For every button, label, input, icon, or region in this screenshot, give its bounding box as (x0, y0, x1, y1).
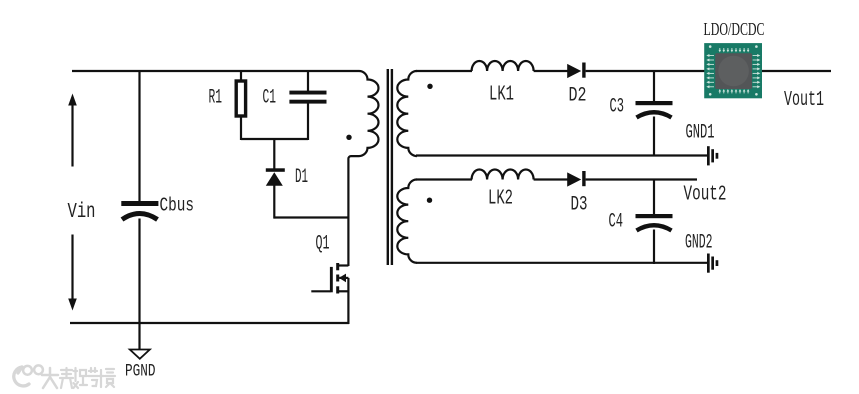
wire top bus (input rail) (72, 70, 359, 72)
wire secondary2 top (416, 178, 472, 180)
transformer T1 primary winding (348, 71, 378, 266)
svg-text:R1: R1 (209, 87, 223, 110)
transistor Q1 body arrow (339, 277, 348, 279)
capacitor C4 bottom curved plate (637, 225, 672, 230)
wire snubber bottom (241, 138, 308, 140)
wire secondary1 top (416, 70, 472, 72)
svg-text:D2: D2 (569, 85, 587, 108)
svg-text:D3: D3 (571, 194, 588, 217)
capacitor Cbus top plate (121, 201, 158, 206)
svg-text:LK1: LK1 (489, 83, 514, 107)
wire bottom bus (return rail) (70, 322, 349, 324)
ground GND1 symbol (707, 146, 710, 165)
svg-text:C3: C3 (610, 96, 625, 119)
wire R1 to snubber bottom (240, 116, 242, 140)
wire top bus to R1 (240, 71, 242, 81)
wire secondary2 bottom (416, 262, 708, 264)
svg-text:Vout2: Vout2 (684, 183, 727, 207)
capacitor Cbus bottom curved plate (122, 214, 158, 220)
IC U1 LDO/DCDC chip (704, 43, 762, 98)
capacitor C4 top plate (636, 214, 673, 218)
wire top bus to C1 (307, 71, 309, 91)
wire clamp horizontal (274, 216, 348, 218)
svg-text:GND1: GND1 (686, 122, 715, 145)
ground PGND symbol (130, 350, 150, 359)
wire Q1 source lead (338, 290, 349, 292)
transistor Q1 channel bars (336, 263, 339, 270)
wire D2 to output (586, 70, 831, 72)
diode D2 (567, 64, 581, 78)
transformer T1 secondary 2 winding (397, 180, 417, 263)
wire D3 to Vout2 (586, 178, 697, 180)
capacitor C1 plates (289, 91, 326, 95)
svg-text:LDO/DCDC: LDO/DCDC (704, 19, 765, 39)
wire Q1 source to bottom bus (347, 278, 349, 324)
ground GND2 symbol (707, 254, 710, 273)
wire Q1 gate lead (311, 290, 330, 292)
svg-text:C4: C4 (609, 211, 624, 234)
transistor Q1 gate bar (330, 267, 333, 292)
node primary dot (346, 135, 351, 140)
svg-text:C1: C1 (263, 87, 277, 110)
svg-text:Q1: Q1 (316, 233, 330, 256)
node secondary2 dot (427, 198, 432, 203)
diode D1 (266, 168, 285, 172)
wire C1 to snubber bottom (307, 103, 309, 140)
node junction top-Cbus (138, 71, 140, 201)
transformer core (387, 69, 389, 265)
diode D3 (567, 172, 581, 186)
wire C3 branch bottom (653, 117, 655, 157)
inductor LK1 (472, 61, 534, 71)
svg-text:GND2: GND2 (685, 232, 713, 255)
inductor LK2 (472, 170, 534, 180)
capacitor C3 top plate (636, 101, 673, 105)
Vin arrow down (71, 235, 73, 300)
svg-text:LK2: LK2 (488, 187, 513, 211)
svg-text:PGND: PGND (125, 362, 156, 382)
wire D1 to clamp node (273, 185, 275, 219)
node secondary1 dot (427, 84, 432, 89)
wire C4 branch bottom (653, 230, 655, 265)
wire C4 branch top (653, 180, 655, 216)
wire LK1 to D2 (534, 70, 568, 72)
svg-text:Cbus: Cbus (160, 195, 195, 217)
wire Cbus to bottom bus (138, 219, 140, 325)
wire snubber to D1 (273, 139, 275, 169)
wire C3 branch top (653, 71, 655, 102)
resistor R1 body (236, 81, 245, 116)
svg-text:D1: D1 (295, 166, 308, 189)
transformer T1 secondary 1 winding (397, 71, 417, 156)
svg-text:Vin: Vin (68, 201, 96, 224)
wire secondary1 bottom (416, 154, 708, 156)
capacitor C3 bottom curved plate (637, 112, 672, 117)
wire PGND stub (138, 323, 140, 349)
watermark logo and text (14, 367, 29, 386)
Vin arrow up (71, 104, 73, 167)
transistor Q1 drain lead (338, 264, 349, 266)
svg-text:Vout1: Vout1 (784, 88, 824, 112)
wire LK2 to D3 (534, 178, 568, 180)
